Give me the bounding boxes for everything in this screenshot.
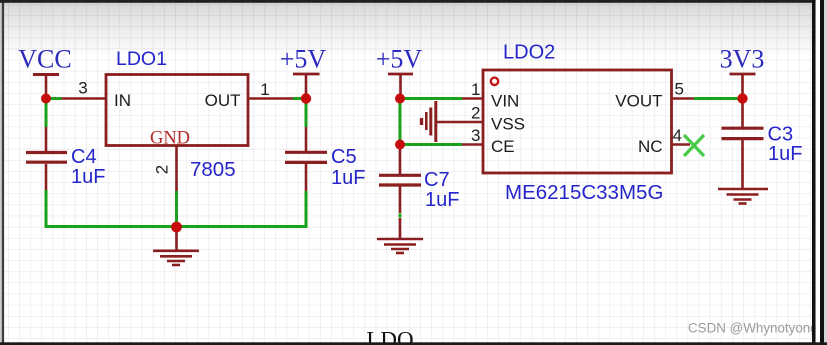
svg-text:3V3: 3V3: [720, 45, 765, 74]
svg-text:3: 3: [471, 126, 480, 145]
svg-text:1uF: 1uF: [71, 166, 105, 188]
svg-text:1uF: 1uF: [425, 189, 459, 211]
svg-text:1uF: 1uF: [331, 167, 365, 189]
svg-text:LDO2: LDO2: [503, 41, 555, 63]
svg-text:C4: C4: [71, 146, 97, 168]
svg-text:4: 4: [673, 126, 682, 145]
svg-text:2: 2: [471, 104, 480, 123]
svg-text:IN: IN: [114, 91, 131, 110]
svg-text:OUT: OUT: [205, 91, 241, 110]
svg-text:CSDN @Whynotyong: CSDN @Whynotyong: [688, 321, 818, 336]
svg-text:GND: GND: [150, 128, 190, 148]
svg-text:1uF: 1uF: [768, 143, 802, 165]
svg-text:3: 3: [78, 79, 87, 98]
svg-text:VIN: VIN: [491, 92, 519, 111]
svg-text:LDO1: LDO1: [116, 48, 167, 70]
svg-text:+5V: +5V: [280, 45, 327, 74]
svg-text:NC: NC: [638, 137, 663, 156]
svg-text:7805: 7805: [190, 158, 236, 181]
svg-text:VOUT: VOUT: [615, 91, 662, 110]
svg-text:C5: C5: [331, 146, 357, 168]
svg-text:ME6215C33M5G: ME6215C33M5G: [505, 181, 663, 204]
svg-text:1: 1: [471, 80, 480, 99]
svg-text:1: 1: [260, 80, 269, 99]
svg-text:VCC: VCC: [18, 45, 71, 74]
svg-text:5: 5: [675, 80, 684, 99]
svg-text:2: 2: [153, 165, 172, 174]
svg-text:C7: C7: [424, 169, 450, 191]
svg-text:CE: CE: [491, 137, 515, 156]
svg-text:+5V: +5V: [376, 45, 423, 74]
svg-text:VSS: VSS: [491, 115, 525, 134]
